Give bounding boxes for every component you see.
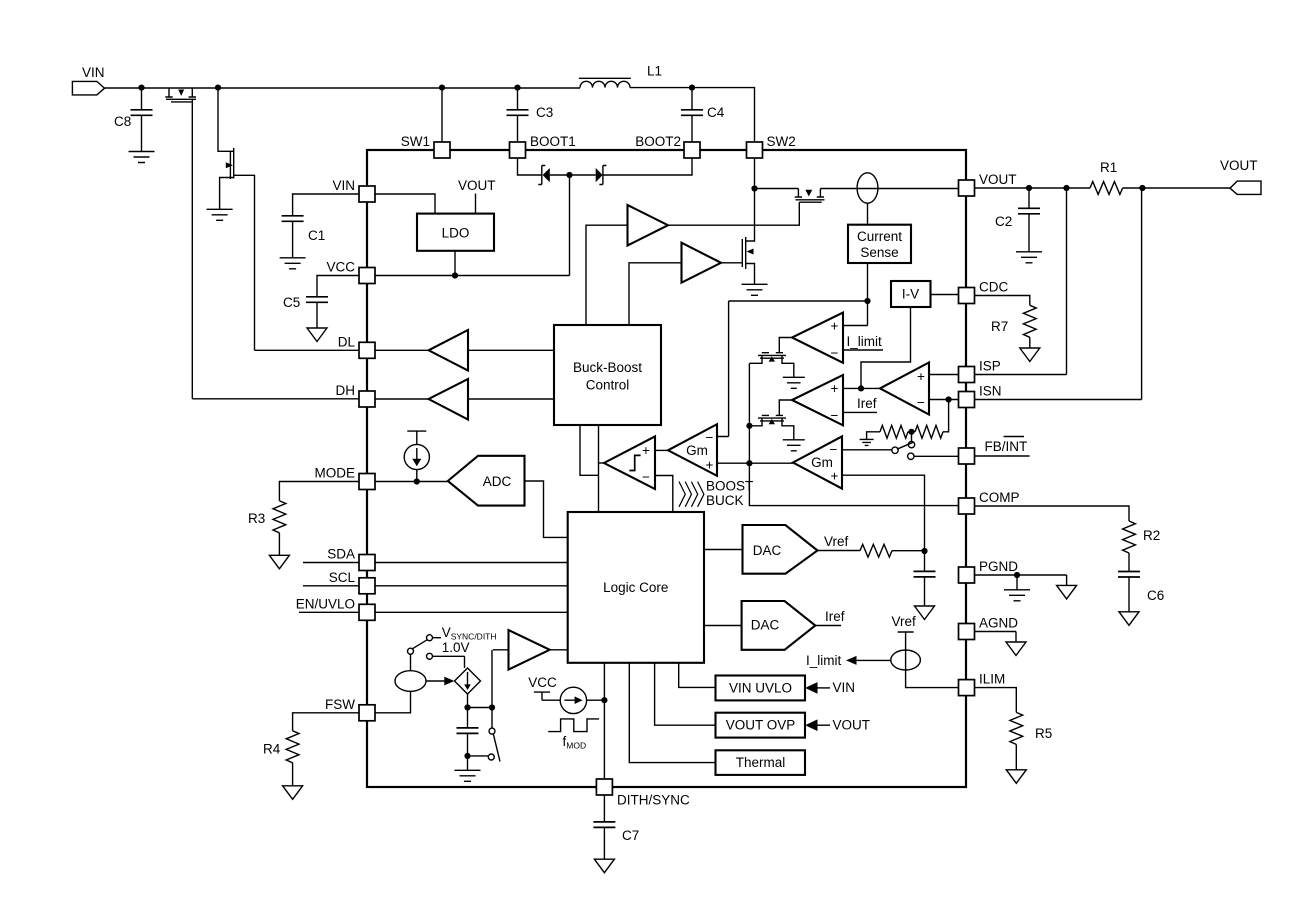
svg-text:Vref: Vref [824, 534, 849, 549]
pin EN/UVLO [359, 604, 375, 620]
wire SW1 to rail [441, 88, 443, 142]
ground [1119, 612, 1139, 626]
pin COMP [959, 498, 975, 514]
buffer A3 PMOS gate driver [628, 205, 669, 246]
wire EN/UVLO stub [299, 611, 359, 613]
junction dot Vref node [921, 548, 927, 554]
pin ISN [959, 392, 975, 408]
wire U4 apex to M2 [779, 400, 792, 415]
wire U8 minus to Logic Core [655, 476, 673, 513]
wire to net V_SYNC/DITH [433, 637, 442, 639]
svg-text:VOUT: VOUT [979, 172, 1017, 187]
pin CDC [959, 288, 975, 304]
pin BOOT2 [684, 142, 700, 158]
svg-text:Vref: Vref [892, 614, 917, 629]
wire ISN input [929, 399, 959, 401]
junction dot LDO output [452, 272, 458, 278]
svg-text:C4: C4 [707, 105, 725, 120]
svg-text:C5: C5 [283, 295, 300, 310]
wire A4 output to Q4 gate [721, 262, 742, 264]
wire LC to VOUT OVP [655, 663, 716, 725]
arrow VIN input [805, 682, 818, 694]
ground [1004, 590, 1030, 601]
junction dot [514, 85, 520, 91]
svg-text:I_limit: I_limit [806, 653, 842, 668]
junction dot SW1 node [439, 85, 445, 91]
transistor M2 switch [758, 415, 786, 421]
junction dot I-V tap [858, 385, 864, 391]
svg-text:−: − [831, 346, 839, 361]
switch sync select [408, 648, 414, 654]
wire U7 apex to U8 [655, 449, 668, 451]
capacitor C7 [593, 822, 615, 828]
wire M2 left lead [749, 418, 762, 426]
svg-text:C1: C1 [308, 228, 325, 243]
svg-text:BUCK: BUCK [706, 493, 744, 508]
svg-text:DITH/SYNC: DITH/SYNC [617, 793, 690, 808]
junction dot [864, 298, 870, 304]
wire [375, 349, 554, 351]
resistor R5 [1010, 712, 1023, 744]
svg-text:+: + [642, 443, 650, 458]
wire DAC1 output [818, 550, 861, 552]
pin ISP [959, 367, 975, 383]
ground [455, 770, 481, 781]
current source I3 [395, 671, 426, 692]
wire DAC2 output stub [815, 625, 841, 627]
svg-text:R3: R3 [248, 511, 265, 526]
wire MODE to ADC [375, 481, 448, 483]
svg-text:DAC: DAC [751, 618, 780, 633]
svg-text:+: + [917, 369, 925, 384]
junction dot [215, 85, 221, 91]
pin MODE [359, 474, 375, 490]
wire COMP net [749, 463, 958, 505]
wire SCL stub [303, 585, 359, 587]
junction dot [464, 704, 470, 710]
wire [1015, 744, 1017, 769]
junction dot [746, 423, 752, 429]
capacitor C2 [1028, 188, 1030, 208]
wire LC to Thermal [629, 663, 715, 763]
arrow I_limit out [846, 656, 857, 665]
wire switch node to sync buffer [491, 650, 493, 708]
wire Q4 drain [746, 189, 755, 242]
ground [783, 377, 805, 388]
svg-text:−: − [917, 395, 925, 410]
wire U6 plus to Vref node [842, 475, 925, 551]
wire ILIM to R5 [975, 688, 1017, 713]
svg-text:R1: R1 [1100, 160, 1117, 175]
arrow from I3 to V1 [426, 680, 445, 682]
wire U4 plus input [843, 387, 880, 389]
wire LC to DAC2 [704, 625, 742, 627]
wire VIN pin to LDO [375, 194, 435, 214]
wire DITH/SYNC to C7 [603, 795, 605, 822]
wire A3 output to Q3 gate [668, 202, 799, 225]
wire [375, 398, 554, 400]
wire to I_limit comparator plus [843, 325, 868, 327]
svg-text:Gm: Gm [686, 443, 708, 458]
wire diode to BOOT2 [603, 158, 692, 175]
svg-text:BOOT1: BOOT1 [530, 134, 576, 149]
LDO block [417, 214, 494, 251]
ground [307, 328, 327, 342]
wire [278, 533, 280, 556]
wire BBC to Logic Core [598, 425, 600, 512]
pin SW1 [434, 142, 450, 158]
capacitor C4 [691, 88, 693, 110]
switch FB select [911, 432, 913, 442]
Gm amp U6 [793, 436, 842, 488]
svg-text:SW2: SW2 [767, 134, 796, 149]
junction dot [464, 753, 470, 759]
wire AGND [975, 632, 1017, 643]
svg-text:DL: DL [338, 334, 356, 349]
current sense loop [857, 173, 878, 203]
wire rail to SW2 [630, 88, 755, 142]
Logic Core block [568, 512, 704, 663]
svg-text:Logic Core: Logic Core [603, 580, 668, 595]
ADC block [448, 456, 525, 506]
junction dot SW2 node [751, 185, 757, 191]
capacitor dither ramp [467, 708, 469, 728]
VIN UVLO block [716, 676, 806, 701]
svg-text:+: + [831, 469, 839, 484]
wire VCC rail to diodes [375, 175, 570, 276]
comparator U3 I_limit [792, 313, 843, 363]
wire loop to Current Sense [867, 203, 869, 225]
wire Iref output stub [843, 411, 877, 413]
ground [1057, 585, 1077, 599]
svg-text:ISP: ISP [979, 359, 1001, 374]
svg-text:Thermal: Thermal [736, 755, 786, 770]
ground [860, 439, 874, 445]
supply bar Vref [898, 632, 914, 650]
pin FB/INT [959, 448, 975, 464]
svg-text:VOUT OVP: VOUT OVP [726, 718, 796, 733]
ground [1020, 348, 1040, 362]
wire VIN pin to C1 [293, 194, 359, 216]
wire [1029, 337, 1031, 348]
wire U3 apex to M1 [779, 338, 792, 353]
svg-text:−: − [642, 470, 650, 485]
svg-text:Control: Control [586, 378, 630, 393]
wire M1 left lead [749, 355, 762, 363]
svg-text:MODE: MODE [315, 466, 356, 481]
ground [280, 258, 306, 269]
svg-text:VIN: VIN [332, 178, 355, 193]
wire switch bus [748, 363, 750, 463]
svg-text:COMP: COMP [979, 490, 1020, 505]
wire SDA internal [375, 562, 568, 564]
current source I4 fMOD [560, 687, 586, 713]
svg-text:AGND: AGND [979, 616, 1018, 631]
capacitor C5 [306, 297, 328, 303]
hysteresis glyph [629, 455, 640, 470]
amplifier U5 current sense amp [880, 363, 929, 415]
transistor Q4 NMOS at SW2 [742, 237, 745, 269]
wire SW2 pin to VOUT rail node [754, 158, 756, 189]
capacitor C6 [1128, 553, 1130, 572]
resistor R2 [1123, 521, 1136, 553]
pin SDA [359, 555, 375, 571]
pin VCC [359, 268, 375, 284]
switch discharge [491, 708, 493, 729]
svg-text:ISN: ISN [979, 384, 1002, 399]
current source I5 ILIM [891, 650, 921, 670]
wire BBC to buffer A3 [586, 225, 628, 325]
svg-text:VOUT: VOUT [1220, 158, 1258, 173]
wire M1 right lead to ground [782, 355, 794, 377]
ground [129, 152, 155, 163]
pin VIN [359, 186, 375, 202]
Current Sense block [848, 225, 911, 263]
wire COMP to R2 [975, 506, 1130, 521]
capacitor C3 [517, 88, 519, 110]
svg-text:Iref: Iref [825, 609, 845, 624]
wire Current Sense output [867, 263, 869, 326]
wire [218, 88, 234, 152]
svg-text:EN/UVLO: EN/UVLO [296, 596, 355, 611]
wire LDO to VCC [454, 251, 456, 276]
ground [1006, 770, 1026, 784]
junction dot [1014, 572, 1020, 578]
wire BBC to buffer A4 [629, 263, 682, 325]
Thermal block [716, 750, 806, 775]
wire PGND [975, 574, 1018, 576]
junction dot [689, 85, 695, 91]
svg-text:R7: R7 [991, 319, 1008, 334]
output flag VOUT [1230, 181, 1261, 194]
wire divider to ground [867, 432, 880, 440]
svg-text:Buck-Boost: Buck-Boost [573, 360, 642, 375]
wire 1.0V contact to source [433, 656, 465, 668]
junction dot C8 node [138, 85, 144, 91]
wire U7 plus output bus [717, 462, 793, 464]
IC boundary [367, 150, 966, 787]
wire ISP input [929, 374, 959, 376]
svg-text:BOOT2: BOOT2 [635, 134, 681, 149]
pin ILIM [959, 680, 975, 696]
resistor divider upper [880, 425, 908, 438]
transistor M1 switch [758, 353, 786, 359]
input flag VIN [72, 81, 104, 95]
wire Logic Core to DITH/SYNC pin [603, 663, 605, 779]
diode D1 [538, 166, 545, 185]
svg-text:C6: C6 [1147, 588, 1164, 603]
wire [410, 654, 412, 671]
wire FSW internal [375, 691, 411, 713]
wire SDA stub [303, 562, 359, 564]
ground [915, 606, 935, 620]
svg-text:FSW: FSW [325, 697, 355, 712]
resistor divider lower [915, 425, 943, 438]
wire I5 to ILIM pin [906, 670, 959, 688]
pin SW2 [747, 142, 763, 158]
svg-text:DAC: DAC [753, 543, 782, 558]
svg-text:I_limit: I_limit [847, 334, 883, 349]
wire [755, 188, 959, 190]
svg-text:Iref: Iref [857, 396, 877, 411]
pin FSW [359, 705, 375, 721]
wire DL external [255, 349, 360, 351]
ground [742, 284, 768, 295]
wire switch to FB/INT pin [914, 455, 959, 457]
wire Q1 gate to DH [191, 99, 193, 399]
svg-text:1.0V: 1.0V [442, 640, 470, 655]
wire [468, 707, 493, 709]
svg-text:Current: Current [857, 229, 902, 244]
pin VOUT [959, 180, 975, 196]
ground [594, 859, 614, 873]
resistor R1 [1090, 182, 1123, 195]
buffer A5 sync [509, 630, 550, 670]
svg-text:R4: R4 [263, 742, 281, 757]
I-V block [891, 281, 931, 307]
svg-text:Sense: Sense [860, 245, 898, 260]
capacitor Vref filter [924, 551, 926, 571]
junction dot [1026, 185, 1032, 191]
wire CDC to R7 [975, 296, 1030, 306]
wire [908, 431, 915, 433]
wire Q4 source [746, 264, 755, 285]
inductor L1 [580, 81, 630, 87]
svg-text:−: − [830, 442, 838, 457]
transistor Q1 input PMOS [165, 88, 196, 102]
wire [550, 174, 596, 176]
junction dot boot supply node [566, 172, 572, 178]
current source I1 [404, 444, 429, 469]
svg-text:I-V: I-V [902, 287, 919, 302]
Gm amp U7 [668, 424, 717, 476]
net VOUT stub at LDO [475, 194, 477, 214]
wire ISP sense [975, 188, 1067, 375]
wire LC to DAC1 [704, 549, 743, 551]
resistor R4 [286, 731, 299, 763]
svg-text:VIN: VIN [833, 680, 856, 695]
svg-text:+: + [831, 319, 839, 334]
svg-text:+: + [831, 381, 839, 396]
svg-text:VIN UVLO: VIN UVLO [729, 681, 792, 696]
capacitor C8 [141, 88, 143, 110]
wire [493, 649, 568, 651]
svg-text:C7: C7 [622, 828, 639, 843]
wire ISN sense [975, 188, 1142, 400]
svg-text:−: − [706, 430, 714, 445]
wire [292, 763, 294, 786]
wire ADC to Logic Core [525, 481, 568, 537]
svg-text:C3: C3 [536, 105, 553, 120]
svg-text:R5: R5 [1035, 726, 1052, 741]
comparator U8 PWM [604, 436, 655, 489]
svg-text:LDO: LDO [442, 226, 470, 241]
svg-text:PGND: PGND [979, 559, 1018, 574]
controlled source V1 diamond [455, 668, 481, 694]
ground [207, 209, 233, 220]
wire [471, 755, 489, 757]
svg-text:VCC: VCC [326, 260, 355, 275]
junction dot divider tap [908, 429, 914, 435]
square wave glyph [548, 719, 599, 732]
svg-text:R2: R2 [1143, 528, 1160, 543]
ground [783, 440, 805, 451]
svg-text:CDC: CDC [979, 280, 1008, 295]
svg-text:VOUT: VOUT [833, 718, 871, 733]
svg-text:SCL: SCL [329, 570, 356, 585]
wire FSW to R4 [293, 713, 359, 731]
svg-text:L1: L1 [647, 64, 662, 79]
pin BOOT1 [510, 142, 526, 158]
buffer A1 DL driver [429, 330, 468, 371]
svg-text:C2: C2 [995, 214, 1012, 229]
svg-text:DH: DH [336, 383, 356, 398]
VOUT OVP block [716, 713, 806, 738]
DAC2 Iref [742, 601, 816, 650]
wire Q2 source to ground [220, 178, 234, 210]
pin DITH/SYNC [596, 779, 612, 795]
transistor Q2 disconnect NMOS [230, 148, 233, 179]
junction dot [1063, 185, 1069, 191]
wire sense signal to Gm minus [717, 301, 868, 437]
wire LC to VIN UVLO [679, 663, 716, 688]
svg-text:ADC: ADC [483, 474, 512, 489]
wire [892, 550, 925, 552]
ground [283, 786, 303, 800]
pin DH [359, 391, 375, 407]
diode D2 [596, 168, 603, 182]
svg-text:+: + [706, 458, 714, 473]
capacitor C1 [282, 216, 304, 222]
ground [269, 555, 289, 569]
junction dot [1139, 185, 1145, 191]
wire divider to ISN line [943, 400, 949, 432]
svg-text:FB/INT: FB/INT [985, 439, 1028, 454]
wire BBC stub A [580, 425, 599, 475]
wire [1017, 575, 1067, 585]
svg-text:SDA: SDA [327, 547, 355, 562]
DAC1 Vref [743, 525, 818, 574]
wire Q2 gate to DL [234, 175, 255, 350]
ground [1006, 642, 1026, 656]
Buck-Boost Control block [554, 325, 661, 425]
wire I_limit output stub [843, 349, 883, 351]
wire I-V to CDC [931, 294, 959, 296]
pin AGND [959, 624, 975, 640]
wire [467, 694, 469, 708]
wire U8 output [599, 462, 605, 464]
wire I-V input [861, 307, 911, 388]
junction dot [746, 460, 752, 466]
pin PGND [959, 567, 975, 583]
svg-text:SW1: SW1 [401, 134, 430, 149]
svg-text:−: − [831, 408, 839, 423]
wire top rail [105, 87, 581, 89]
transistor Q3 PMOS pass [795, 189, 825, 203]
wire VOUT rail [975, 187, 1231, 189]
wire [1016, 575, 1018, 590]
svg-text:C8: C8 [114, 114, 131, 129]
svg-text:BOOST: BOOST [706, 479, 753, 494]
pin SCL [359, 578, 375, 594]
ground [1016, 252, 1042, 263]
overline on INT [1004, 436, 1025, 438]
arrow VOUT input [805, 719, 818, 731]
pin DL [359, 342, 375, 358]
wire [416, 470, 418, 482]
comparator U4 Iref [792, 375, 843, 425]
wire Gm minus to switch [842, 449, 892, 451]
